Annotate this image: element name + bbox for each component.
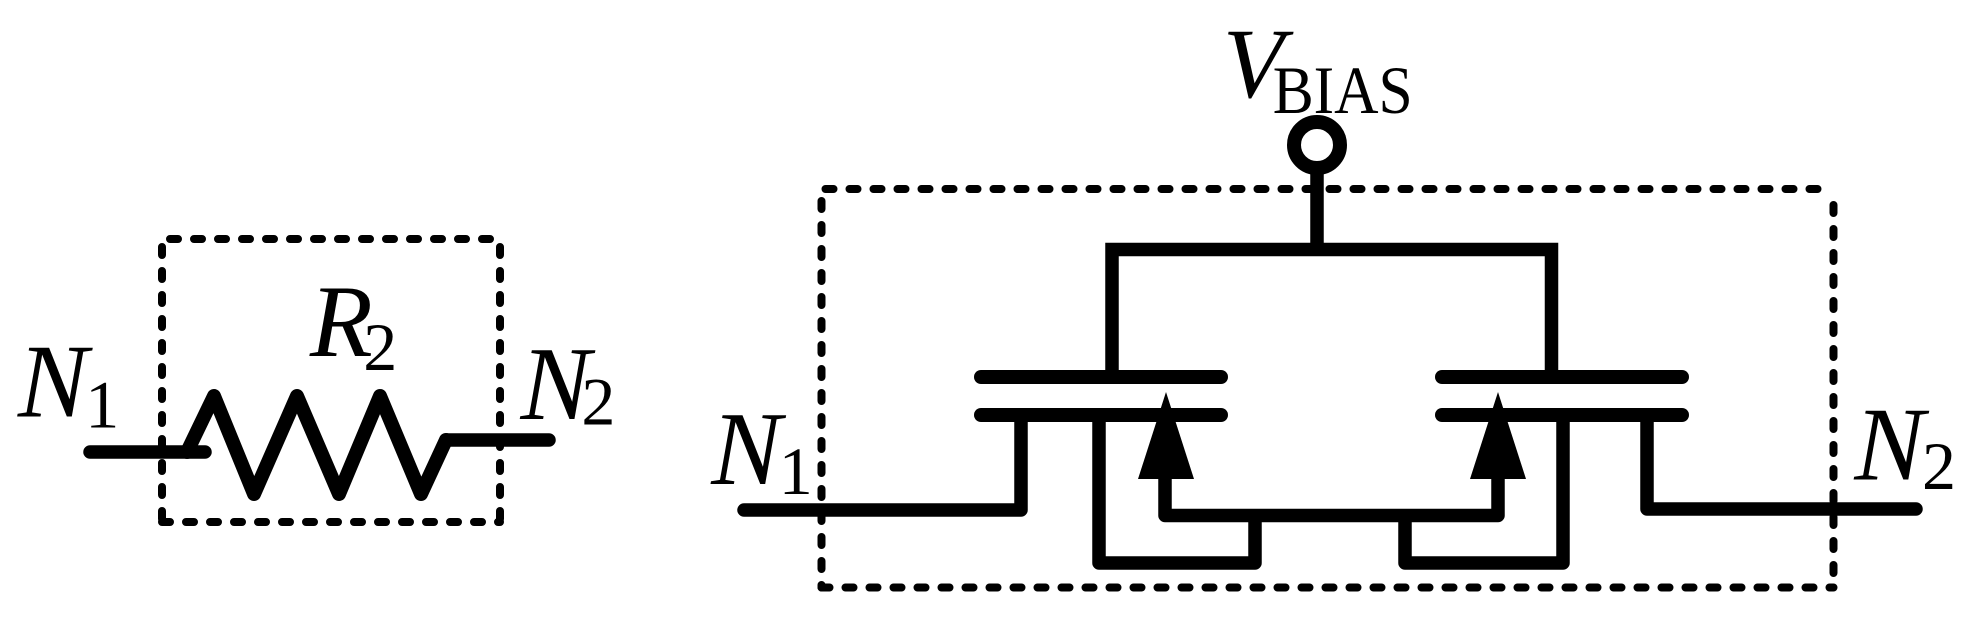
gate rail wire connecting both gates to V_BIAS bbox=[1112, 250, 1552, 381]
svg-text:2: 2 bbox=[1922, 428, 1956, 504]
transistor M1 source/bulk arrow bbox=[1138, 392, 1194, 479]
dashed box around transistor pair model bbox=[822, 189, 1834, 588]
wire N2 (left circuit) bbox=[446, 433, 549, 447]
transistor M2 bulk wire loop bbox=[1405, 415, 1563, 563]
terminal circle V_BIAS bbox=[1294, 122, 1340, 168]
transistor M2 source/bulk arrow bbox=[1470, 392, 1526, 479]
node N2 label (left circuit) bbox=[520, 325, 616, 442]
node N1 label (right circuit) bbox=[710, 390, 813, 509]
svg-text:N: N bbox=[1853, 386, 1929, 503]
svg-text:N: N bbox=[17, 323, 93, 440]
svg-text:2: 2 bbox=[581, 364, 615, 440]
middle source wire joining M1 and M2 sources bbox=[1165, 476, 1498, 516]
svg-text:1: 1 bbox=[85, 367, 119, 443]
wire N1 into transistor M1 drain bbox=[744, 418, 1021, 510]
transistor M1 bulk wire loop bbox=[1099, 415, 1255, 563]
wire N1 (left circuit) bbox=[90, 445, 205, 459]
transistor M2 channel bar bbox=[1442, 408, 1682, 422]
net V_BIAS label bbox=[1223, 8, 1413, 128]
wire from V_BIAS terminal down to gate rail bbox=[1310, 170, 1324, 254]
resistor R2 value label bbox=[309, 265, 397, 385]
transistor M1 channel bar bbox=[981, 408, 1221, 422]
svg-text:BIAS: BIAS bbox=[1273, 52, 1413, 128]
svg-text:2: 2 bbox=[363, 309, 397, 385]
dashed box around resistor model bbox=[162, 239, 500, 522]
transistor M1 gate bar bbox=[981, 370, 1221, 384]
resistor R2 zigzag body bbox=[187, 396, 446, 494]
svg-text:1: 1 bbox=[779, 433, 813, 509]
wire N2 from transistor M2 drain bbox=[1647, 418, 1916, 509]
node N1 label (left circuit) bbox=[17, 323, 119, 443]
transistor M2 gate bar bbox=[1442, 370, 1682, 384]
svg-text:N: N bbox=[710, 390, 786, 507]
node N2 label (right circuit) bbox=[1853, 386, 1956, 504]
